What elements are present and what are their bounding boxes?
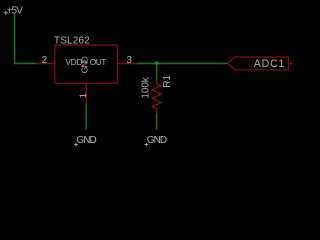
svg-text:2: 2 — [42, 55, 48, 66]
ground GND left origin cross — [74, 143, 78, 147]
svg-text:OUT: OUT — [90, 57, 107, 67]
svg-text:GND: GND — [76, 135, 96, 146]
power +5V origin cross — [4, 11, 8, 15]
resistor R1 top lead — [156, 79, 158, 83]
wire +5V to pin 2 — [14, 63, 37, 65]
wire pin1 to GND — [85, 103, 87, 130]
ground GND right origin cross — [145, 143, 149, 147]
resistor R1 zigzag — [152, 83, 161, 108]
svg-text:GND: GND — [147, 135, 167, 146]
svg-text:R1: R1 — [162, 74, 173, 87]
svg-text:ADC1: ADC1 — [254, 58, 285, 70]
svg-text:1: 1 — [78, 93, 89, 98]
wire pin3 to ADC1 — [137, 63, 228, 65]
junction dot — [155, 61, 159, 65]
net flag ADC1 outline — [228, 57, 288, 70]
net flag ADC1 origin cross — [289, 62, 293, 66]
pin 1 GND lead — [85, 83, 87, 102]
svg-text:100k: 100k — [141, 76, 152, 98]
pin 3 OUT lead — [117, 63, 136, 65]
svg-text:3: 3 — [126, 55, 132, 66]
wire junction down to resistor — [156, 64, 158, 80]
sensor U1 origin cross — [82, 62, 87, 67]
sensor U1 TSL262 body — [55, 45, 118, 83]
wire +5V vertical — [14, 14, 16, 64]
svg-text:TSL262: TSL262 — [54, 36, 90, 47]
resistor R1 bottom lead — [156, 109, 158, 113]
wire resistor to GND — [156, 113, 158, 129]
pin 2 VDD lead — [37, 63, 55, 65]
